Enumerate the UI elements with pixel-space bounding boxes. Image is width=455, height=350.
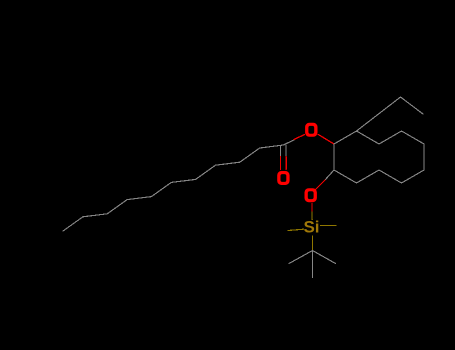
svg-text:Si: Si [303,218,319,237]
